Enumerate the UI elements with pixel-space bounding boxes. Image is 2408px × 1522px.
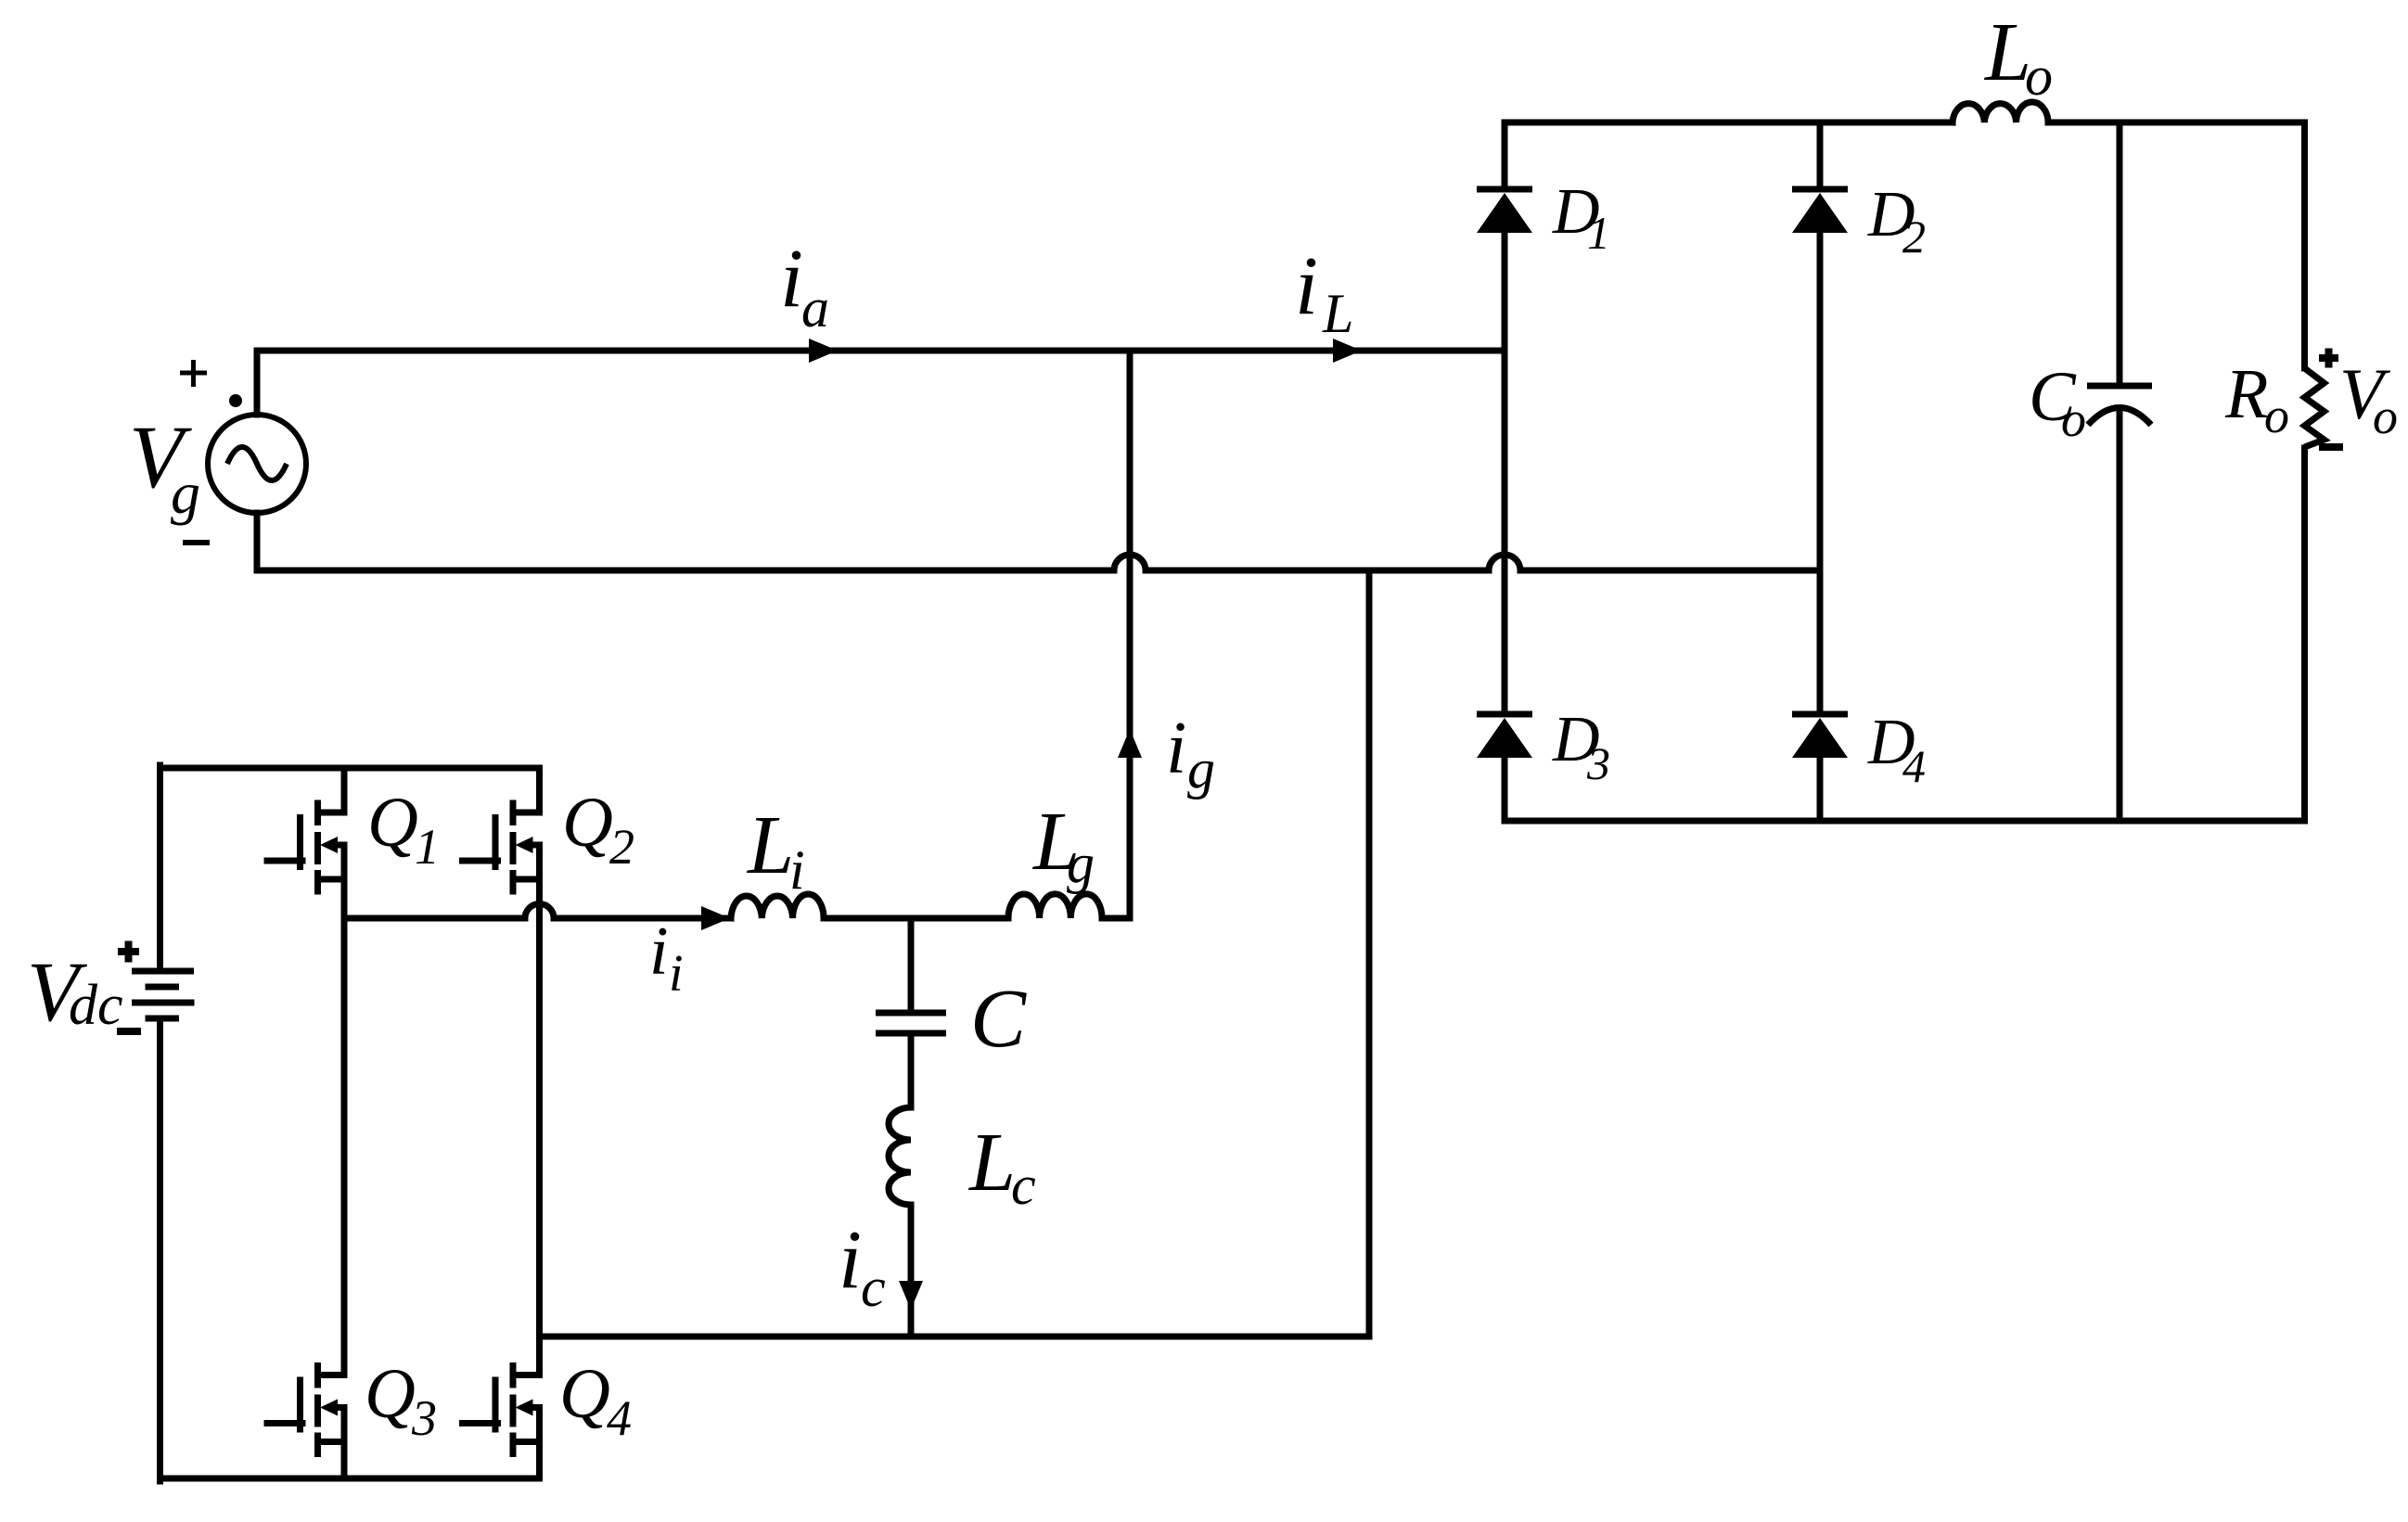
svg-text:C: C	[970, 973, 1027, 1065]
svg-text:2: 2	[609, 819, 634, 875]
svg-text:o: o	[2373, 389, 2398, 444]
svg-text:a: a	[801, 277, 829, 339]
svg-text:i: i	[1295, 240, 1318, 332]
svg-text:i: i	[839, 1214, 862, 1306]
svg-text:c: c	[861, 1257, 886, 1318]
svg-text:o: o	[2061, 391, 2086, 447]
svg-text:Q: Q	[562, 784, 613, 862]
svg-text:4: 4	[607, 1390, 632, 1446]
svg-text:g: g	[171, 460, 200, 526]
svg-text:1: 1	[1587, 207, 1610, 259]
svg-text:Q: Q	[559, 1355, 610, 1433]
svg-text:i: i	[669, 945, 684, 1003]
svg-text:c: c	[1011, 1155, 1036, 1216]
svg-text:L: L	[1322, 283, 1353, 344]
svg-text:Q: Q	[367, 784, 418, 862]
svg-text:4: 4	[1902, 740, 1926, 792]
svg-text:1: 1	[415, 819, 440, 875]
svg-text:R: R	[2224, 355, 2268, 433]
svg-text:i: i	[789, 839, 805, 901]
svg-text:dc: dc	[69, 974, 123, 1037]
svg-text:3: 3	[1586, 737, 1610, 789]
svg-text:i: i	[1166, 708, 1186, 789]
svg-text:L: L	[746, 799, 794, 891]
svg-text:o: o	[2025, 45, 2053, 107]
svg-text:g: g	[1187, 738, 1215, 799]
svg-text:i: i	[649, 914, 669, 990]
svg-text:i: i	[780, 233, 803, 325]
svg-text:L: L	[967, 1117, 1016, 1209]
svg-text:3: 3	[411, 1390, 437, 1446]
svg-text:g: g	[1067, 833, 1095, 894]
svg-text:2: 2	[1902, 211, 1926, 262]
svg-text:Q: Q	[365, 1355, 416, 1433]
svg-text:o: o	[2264, 388, 2289, 443]
